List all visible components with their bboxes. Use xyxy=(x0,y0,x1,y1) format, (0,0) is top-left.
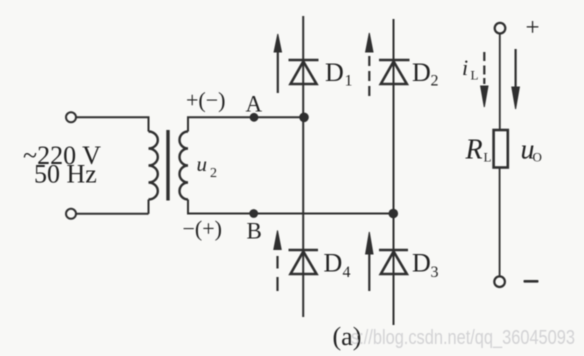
svg-text:u: u xyxy=(197,152,208,176)
svg-text:−(+): −(+) xyxy=(183,216,222,241)
svg-text:A: A xyxy=(246,91,263,116)
svg-text:D: D xyxy=(324,249,343,278)
svg-text:+: + xyxy=(526,15,540,42)
svg-text:2: 2 xyxy=(210,166,217,181)
svg-text:i: i xyxy=(462,55,468,80)
svg-text:+(−): +(−) xyxy=(186,88,225,113)
svg-text:3: 3 xyxy=(431,264,439,281)
svg-text:O: O xyxy=(533,150,542,165)
svg-text:R: R xyxy=(465,135,483,166)
svg-text:L: L xyxy=(484,150,492,165)
svg-text:D: D xyxy=(412,249,431,278)
svg-text:D: D xyxy=(325,58,344,87)
svg-text:4: 4 xyxy=(343,264,351,281)
svg-text:B: B xyxy=(247,219,262,244)
svg-text:50 Hz: 50 Hz xyxy=(34,160,97,189)
svg-text:D: D xyxy=(412,58,431,87)
svg-text:2: 2 xyxy=(431,73,439,90)
svg-text:L: L xyxy=(471,68,479,83)
svg-text:1: 1 xyxy=(345,73,353,90)
svg-text:s://blog.csdn.net/qq_36045093: s://blog.csdn.net/qq_36045093 xyxy=(351,327,575,349)
